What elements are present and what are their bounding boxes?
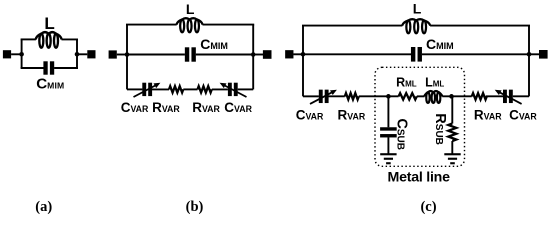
inductor L (c) (402, 21, 408, 26)
varactor CVAR (b) right (228, 83, 232, 96)
node (c) metal-line right (449, 94, 454, 99)
wire (b) right stub (253, 54, 263, 56)
ground below CSUB (380, 153, 396, 155)
wire CSUB branch upper (387, 96, 389, 127)
dotted box metal line (375, 67, 465, 166)
node (c) metal-line left (386, 94, 391, 99)
terminal (c) left port (285, 50, 293, 58)
terminal (c) right port (539, 50, 548, 59)
svg-text:(a): (a) (35, 199, 52, 215)
wire (b) bottom seg2 (152, 88, 169, 90)
wire (c) left stub (293, 53, 303, 55)
resistor RSUB (448, 124, 456, 142)
node (a) right junction (75, 52, 80, 57)
ground below RSUB (444, 153, 460, 155)
wire (b) left vertical (126, 25, 128, 90)
wire (c) left vertical (302, 26, 304, 97)
wire (c) bottom seg3 (359, 95, 399, 97)
svg-text:LML: LML (425, 76, 444, 90)
terminal (a) right port (87, 50, 95, 58)
svg-text:CVAR: CVAR (121, 100, 149, 115)
wire (c) bottom seg1 (303, 95, 319, 97)
wire (c) right vertical (528, 26, 530, 97)
resistor RML (399, 93, 417, 99)
wire RSUB branch upper (451, 96, 453, 123)
capacitor CMIM (a) (43, 61, 47, 74)
terminal (b) right port (263, 50, 272, 59)
wire (c) top-right segment (430, 25, 530, 27)
svg-text:RVAR: RVAR (474, 108, 502, 123)
svg-text:L: L (186, 1, 195, 17)
wire RSUB branch lower (451, 141, 453, 154)
terminal (b) left port (109, 50, 117, 58)
varactor CVAR (b) left (142, 83, 146, 96)
node (b) left junction (125, 52, 130, 57)
wire (b) bottom seg4 (212, 88, 228, 90)
wire (b) top-right segment (203, 24, 255, 26)
inductor L (b) (176, 20, 182, 25)
wire (b) bottom seg1 (127, 88, 142, 90)
varactor CVAR (c) left (319, 90, 323, 103)
wire (c) bottom seg4 (417, 95, 425, 97)
wire (a) right stub (77, 53, 87, 55)
svg-text:(c): (c) (420, 199, 436, 215)
varactor CVAR (c) right (503, 90, 507, 103)
wire (a) left vertical (21, 39, 23, 68)
svg-text:L: L (413, 0, 422, 16)
svg-text:RVAR: RVAR (338, 108, 366, 123)
wire (a) left stub (11, 53, 22, 55)
wire (c) middle-left segment (303, 53, 411, 55)
wire (c) bottom seg7 (513, 95, 529, 97)
inductor LML (424, 92, 428, 96)
svg-text:CVAR: CVAR (509, 108, 537, 123)
svg-text:Metal line: Metal line (388, 170, 451, 186)
wire (b) middle-right segment (196, 54, 253, 56)
node (b) right junction (251, 52, 256, 57)
node (a) left junction (19, 52, 24, 57)
resistor RVAR (c) right (472, 93, 487, 99)
svg-text:CMIM: CMIM (36, 76, 64, 93)
wire (a) right vertical (76, 39, 78, 68)
node (c) left junction (301, 52, 306, 57)
wire (b) right vertical (252, 25, 254, 90)
wire (b) bottom seg5 (238, 88, 254, 90)
wire (b) bottom seg3 (183, 88, 197, 90)
svg-text:CMIM: CMIM (200, 36, 228, 52)
resistor RVAR (b) right (198, 86, 212, 92)
wire (a) bottom-left segment (21, 67, 44, 69)
wire (b) middle-left segment (127, 54, 185, 56)
wire (a) top-left segment (21, 38, 36, 40)
wire (a) bottom-right segment (54, 67, 78, 69)
wire (b) top-left segment (126, 24, 177, 26)
wire (c) bottom seg5 (442, 95, 472, 97)
svg-text:CSUB: CSUB (394, 118, 410, 150)
wire (c) top-left segment (302, 25, 402, 27)
svg-text:RVAR: RVAR (152, 100, 180, 115)
resistor RVAR (c) left (345, 93, 359, 99)
svg-text:CVAR: CVAR (296, 108, 324, 123)
wire CSUB branch lower (387, 137, 389, 153)
wire (b) left stub (117, 54, 127, 56)
svg-text:RVAR: RVAR (192, 100, 220, 115)
wire (a) top-right segment (62, 38, 79, 40)
capacitor CMIM (c) (411, 47, 415, 62)
node (c) right junction (527, 52, 532, 57)
wire (c) bottom seg6 (486, 95, 504, 97)
wire (c) middle-right segment (422, 53, 529, 55)
svg-text:L: L (44, 14, 54, 33)
wire (c) right stub (529, 53, 539, 55)
svg-text:CVAR: CVAR (224, 100, 252, 115)
capacitor CMIM (b) (185, 47, 189, 61)
capacitor CSUB (380, 127, 397, 130)
svg-text:CMIM: CMIM (426, 36, 454, 52)
svg-text:(b): (b) (186, 199, 204, 215)
resistor RVAR (b) left (169, 86, 183, 92)
svg-text:RML: RML (396, 76, 417, 90)
inductor L (a) (36, 34, 42, 40)
terminal (a) left port (3, 50, 11, 58)
svg-text:RSUB: RSUB (432, 113, 448, 145)
wire (c) bottom seg2 (329, 95, 345, 97)
